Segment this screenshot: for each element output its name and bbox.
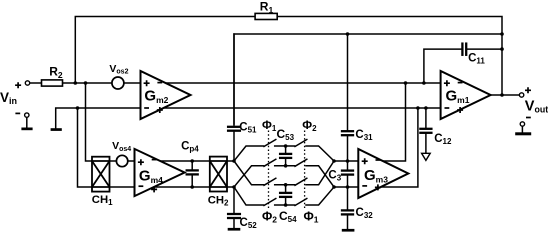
wire Gm2 plus rail y=83 xyxy=(30,82,441,84)
switch blade row1 right phase2 xyxy=(295,140,307,147)
wire from plus rail down to CH1 top input xyxy=(86,83,93,161)
ground bar at Gm2 minus rail xyxy=(51,128,62,131)
capacitor C3 xyxy=(342,161,353,187)
capacitor C32 xyxy=(342,187,353,229)
wire fan node B to row4 xyxy=(234,187,264,205)
svg-text:C52: C52 xyxy=(240,217,258,230)
wire Gm2 minus rail y=108 with ground corner xyxy=(56,108,441,128)
label Vout plus sign xyxy=(525,87,531,93)
voltage source Vos4 xyxy=(116,155,127,166)
clock line phi2 dotted xyxy=(304,131,306,209)
wire CH1 to Gm4 to CH2 top y=161 xyxy=(110,160,210,162)
label Vin minus sign xyxy=(15,112,20,114)
wire row2 mid segment xyxy=(275,165,295,167)
ground bar at Vin minus xyxy=(21,117,32,130)
wire node C to Gm3 plus input xyxy=(334,160,358,162)
wire fan node A to row1 xyxy=(234,146,264,161)
wire second feedback rail y=34 from C51 top xyxy=(234,34,502,124)
junction C11 right at output branch xyxy=(500,47,504,51)
node C Gm3 plus input xyxy=(332,159,336,163)
ground bar under C52 xyxy=(228,228,241,231)
op-amp Gm2 xyxy=(141,71,191,119)
wire Gm1 output to terminal xyxy=(491,94,520,96)
svg-text:Φ2: Φ2 xyxy=(262,210,277,225)
node B CH2 bottom output xyxy=(232,185,236,189)
junction Gm3 top output to Gm1 plus rail xyxy=(404,81,408,85)
svg-text:Cp4: Cp4 xyxy=(181,140,199,153)
label Vin plus sign xyxy=(15,82,21,88)
resistor R2 xyxy=(42,80,63,86)
wire row1 to node C xyxy=(306,146,334,161)
wire row4 mid segment xyxy=(275,204,295,206)
junction top-feedback to R2 rail xyxy=(74,81,78,85)
switch blade row1 left phase1 xyxy=(264,140,276,147)
svg-text:CH2: CH2 xyxy=(208,194,229,207)
svg-text:C51: C51 xyxy=(239,121,257,134)
chopper CH1 xyxy=(92,157,110,192)
resistor R1 xyxy=(255,13,277,19)
capacitor C11 xyxy=(424,44,502,83)
output terminal plus xyxy=(519,93,523,97)
output terminal minus xyxy=(520,122,524,126)
svg-text:Φ2: Φ2 xyxy=(302,118,317,133)
switch blade row4 left phase2 xyxy=(264,199,276,206)
wire row3 to node C xyxy=(306,161,334,185)
wire row3 mid segment xyxy=(275,184,295,186)
wire row1 mid segment xyxy=(275,145,295,147)
capacitor C12 xyxy=(420,108,431,153)
wire fan node B to row2 xyxy=(234,166,264,187)
input terminal minus xyxy=(25,113,29,117)
svg-text:C32: C32 xyxy=(356,207,374,220)
svg-text:R1: R1 xyxy=(260,0,274,15)
junction C11 to Gm1 plus rail xyxy=(422,81,426,85)
capacitor C54 xyxy=(280,185,291,205)
junction C54 top row3 xyxy=(284,183,288,187)
ground arrow under C12 xyxy=(422,153,431,160)
op-amp Gm1 xyxy=(441,71,491,119)
svg-text:C53: C53 xyxy=(277,127,295,142)
junction feedback rail 2 at output branch xyxy=(500,32,504,36)
wire Gm3 bottom output to Gm1 minus rail xyxy=(358,108,418,187)
svg-text:CH1: CH1 xyxy=(92,194,113,207)
wire CH1 to Gm4 to CH2 bottom y=187 xyxy=(110,186,210,188)
wire row4 to node D xyxy=(306,187,334,205)
clock line phi1 dotted xyxy=(268,131,270,209)
wire CH2 to node B xyxy=(227,186,234,188)
junction C53 top row1 xyxy=(284,144,288,148)
junction minus rail to CH1 bottom branch xyxy=(76,106,80,110)
wire top feedback rail y=16.5 xyxy=(75,17,502,96)
svg-text:Vos4: Vos4 xyxy=(112,140,131,153)
label Vout minus sign xyxy=(526,117,531,119)
ground bar under C32 xyxy=(342,229,355,232)
junction C31-C3 at node C wire xyxy=(346,159,350,163)
capacitor C31 xyxy=(342,34,353,161)
junction C12 to Gm1 minus rail xyxy=(424,106,428,110)
svg-text:C31: C31 xyxy=(355,129,373,142)
junction C54 bottom row4 xyxy=(284,203,288,207)
input terminal plus xyxy=(25,81,29,85)
node A CH2 top output xyxy=(232,159,236,163)
svg-text:Vos2: Vos2 xyxy=(109,63,128,76)
svg-text:C54: C54 xyxy=(279,209,297,224)
junction Gm3 bottom output to Gm1 minus rail xyxy=(416,106,420,110)
svg-text:Φ1: Φ1 xyxy=(304,210,319,225)
switch blade row3 right phase1 xyxy=(295,178,307,185)
junction C53 bottom row2 xyxy=(284,164,288,168)
switch blade row4 right phase1 xyxy=(295,199,307,206)
op-amp Gm4 xyxy=(135,149,185,196)
svg-text:C3: C3 xyxy=(328,169,341,182)
capacitor C52 xyxy=(228,187,240,228)
voltage source Vos2 xyxy=(112,77,124,89)
junction R2 rail to CH1 top branch xyxy=(84,81,88,85)
wire from minus rail down to CH1 bottom input xyxy=(78,108,93,187)
chopper CH2 xyxy=(210,157,227,192)
svg-text:C11: C11 xyxy=(468,53,485,66)
wire fan node A to row3 xyxy=(234,161,264,185)
wire row2 to node D xyxy=(306,166,334,187)
svg-text:Vin: Vin xyxy=(0,90,17,106)
wire CH2 to node A xyxy=(227,160,234,162)
capacitor C51 xyxy=(228,34,240,161)
wire node D to Gm3 minus input xyxy=(334,186,358,188)
junction output node xyxy=(500,93,504,97)
junction Cp4 top xyxy=(190,159,194,163)
svg-text:Vout: Vout xyxy=(525,98,548,114)
capacitor C53 xyxy=(280,146,291,166)
wire Gm3 top output to Gm1 plus rail xyxy=(358,83,405,161)
capacitor Cp4 xyxy=(187,161,198,187)
svg-text:C12: C12 xyxy=(434,133,452,146)
junction C3-C32 at node D wire xyxy=(346,185,350,189)
switch blade row2 right phase2 xyxy=(295,159,307,166)
svg-text:Φ1: Φ1 xyxy=(262,118,277,133)
switch blade row2 left phase1 xyxy=(264,159,276,166)
node D Gm3 minus input xyxy=(332,185,336,189)
switch blade row3 left phase2 xyxy=(264,178,276,185)
ground bar at Vout minus xyxy=(515,126,531,135)
junction Cp4 bottom xyxy=(190,185,194,189)
svg-text:R2: R2 xyxy=(49,65,63,80)
junction C31 to feedback rail xyxy=(346,32,350,36)
op-amp Gm3 xyxy=(358,149,408,198)
